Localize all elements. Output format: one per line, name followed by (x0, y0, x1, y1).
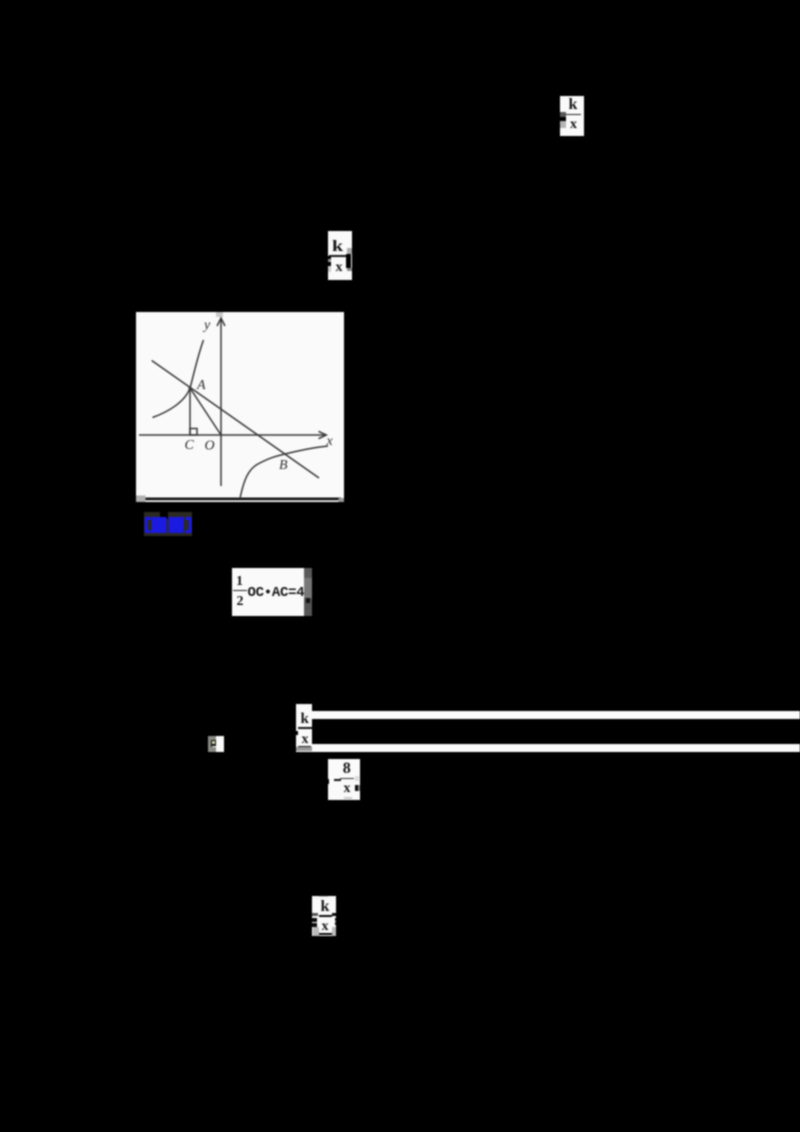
svg-text:A: A (196, 378, 206, 393)
line AB (152, 361, 319, 479)
hyperbola lower-right branch (240, 446, 328, 497)
blue highlighted label (144, 512, 192, 536)
y axis (139, 318, 328, 497)
long white rule 2 (312, 744, 800, 752)
point A dot (188, 386, 191, 389)
formula k/x (bottom) (312, 896, 337, 936)
formula (1/2)OC*AC=4 (232, 568, 304, 616)
svg-text:O: O (205, 439, 215, 454)
formula y=k/x (second) (328, 231, 352, 280)
small gray/white marker box (208, 736, 224, 752)
labels (185, 318, 334, 473)
svg-text:y: y (202, 318, 211, 333)
svg-text:x: x (326, 434, 334, 449)
svg-text:C: C (185, 438, 195, 453)
right angle mark (190, 429, 197, 436)
line AC (189, 388, 191, 435)
formula -8/x (328, 759, 360, 800)
line AO (190, 388, 221, 435)
bottom-right gray square (339, 498, 345, 502)
svg-text:B: B (279, 458, 288, 473)
graph figure (136, 312, 344, 502)
top gray square (216, 312, 223, 317)
formula k/x with rules (296, 704, 313, 753)
formula y=k/x (top right) (560, 96, 584, 136)
bottom-left gray square (136, 496, 146, 503)
long white rule 1 (312, 711, 800, 719)
bottom rule (139, 498, 341, 501)
x axis (139, 434, 325, 436)
hyperbola upper-left branch (153, 340, 204, 418)
